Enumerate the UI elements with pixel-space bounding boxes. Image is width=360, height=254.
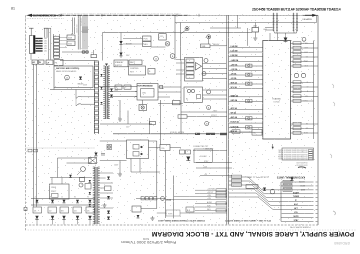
margin smudge 1 bbox=[332, 84, 334, 88]
fan label boxes bbox=[232, 175, 242, 178]
bottom row to bus 5 bbox=[195, 203, 227, 205]
rectifier cell diode top 2 bbox=[51, 200, 54, 203]
ladder row VIF bbox=[229, 113, 263, 115]
cap near xbox bbox=[101, 153, 105, 155]
x-circle lamp 2 bbox=[85, 50, 88, 53]
left label box y116 bbox=[178, 115, 187, 118]
secondary block bbox=[50, 184, 70, 199]
vertical wire at 121 bbox=[120, 33, 122, 59]
diode above x-box bbox=[94, 153, 97, 156]
ground under cap bbox=[254, 36, 256, 38]
vertical wire x181 mid bbox=[180, 61, 182, 134]
connector hatched post pair 2 bbox=[293, 13, 295, 32]
small dark part on y177 bbox=[80, 178, 85, 182]
circle symbol A in SAF block bbox=[65, 75, 70, 80]
vertical x156.8 bbox=[156, 141, 158, 209]
ground under T1 area bbox=[119, 117, 121, 119]
vertical below regbox 1 bbox=[130, 159, 132, 173]
ladder row SCL bbox=[229, 88, 263, 90]
svg-text:GRD4960: GRD4960 bbox=[334, 241, 350, 245]
svg-text:84 84: 84 84 bbox=[142, 237, 149, 240]
diode in SAF block bbox=[79, 77, 82, 80]
cold sub box bbox=[194, 149, 213, 163]
IC block top pin stubs bbox=[269, 33, 271, 41]
T2 core lines bbox=[95, 167, 97, 224]
rectifier cell diode bottom 2 bbox=[51, 216, 54, 220]
top border line bbox=[27, 14, 318, 16]
bottom row to bus 6 bbox=[195, 206, 227, 208]
top-left vertical bus wire 1 bbox=[77, 15, 79, 49]
top circle right bbox=[302, 37, 306, 41]
small box pair cold 2 bbox=[186, 150, 191, 154]
component fuse box bbox=[91, 55, 97, 58]
top-left vertical bus wire 4 bbox=[84, 15, 86, 49]
plug T-bar right bbox=[44, 27, 48, 29]
IC block cold control bbox=[184, 87, 203, 102]
notes table bbox=[282, 148, 314, 160]
right inner vertical line bbox=[313, 41, 315, 140]
rectifier cell box 1 bbox=[33, 207, 42, 213]
bottom wire y213 bbox=[157, 212, 166, 214]
mains vertical wire N bbox=[36, 64, 38, 205]
wire comb to regbox bbox=[100, 140, 127, 142]
rectifier cell diode top 5 bbox=[88, 200, 91, 203]
connector pin column bbox=[53, 34, 55, 58]
ladder row +13V bbox=[229, 70, 263, 72]
box control hot bbox=[129, 66, 146, 75]
rectifier cell stub 1 bbox=[36, 219, 38, 225]
bottom faint dotted row bbox=[25, 229, 356, 231]
main IC block TDA8380 bbox=[263, 41, 291, 140]
HOT drive block bbox=[137, 84, 158, 101]
right row DEFL bbox=[291, 43, 314, 45]
diode on y177 bbox=[69, 175, 72, 178]
bottom bus wire 1 bbox=[31, 198, 95, 200]
small box snubber 1 bbox=[115, 85, 122, 89]
rectifier cell diode top 4 bbox=[76, 200, 79, 203]
wire joining lamps bbox=[62, 51, 89, 53]
cold diode r1 bbox=[107, 177, 110, 180]
diode D2 mid bbox=[119, 53, 122, 56]
small dark box bottom mid bbox=[186, 207, 194, 212]
cold ground r bbox=[104, 203, 106, 205]
mains transformer T1 winding comb bbox=[104, 66, 106, 119]
wire hot to sub bbox=[142, 100, 144, 105]
rectifier cell box 4 bbox=[73, 207, 82, 213]
ladder row AFC bbox=[229, 109, 263, 111]
circle right of secondary bbox=[79, 183, 83, 187]
plug side wires bbox=[48, 28, 50, 59]
wire degauss top bbox=[175, 22, 317, 24]
wire RG to x181 bbox=[170, 147, 181, 149]
SAF sync control block bbox=[54, 66, 93, 88]
rectifier cell diode top 3 bbox=[62, 200, 65, 203]
bottom row to bus 2 bbox=[195, 193, 227, 195]
right circle pair 2 bbox=[301, 73, 305, 77]
IC block pins bbox=[203, 89, 227, 91]
input terminal box 1 bbox=[32, 60, 38, 64]
x-box isolation bbox=[89, 158, 97, 164]
cold bottom box bbox=[132, 206, 141, 212]
rectifier cell diode top 1 bbox=[35, 200, 38, 203]
small box RG bbox=[160, 145, 170, 151]
T1 left side marks bbox=[100, 74, 102, 76]
small box right of hot bbox=[173, 101, 181, 105]
ladder row H-OUT bbox=[229, 122, 263, 124]
vertical stub x237.5 bbox=[237, 15, 239, 28]
stack wire to bus 3 bbox=[203, 73, 227, 75]
cold small box r1 bbox=[105, 186, 112, 191]
connector loop bottom bar bbox=[275, 32, 297, 34]
bottom border dashed bbox=[26, 224, 319, 226]
mains vertical wire L bbox=[33, 64, 35, 205]
cold bottom wire bbox=[141, 208, 157, 210]
hot-cold dotted separator bbox=[26, 147, 96, 149]
rectifier cell stub 2 bbox=[52, 219, 54, 225]
ladder top row 3 bbox=[229, 56, 263, 58]
fan mid box bbox=[246, 185, 258, 189]
svg-text:2SC4458 TDA8380 BUT11AF S2000A: 2SC4458 TDA8380 BUT11AF S2000AF TDA3653B… bbox=[252, 8, 341, 12]
rectifier cell stub 4 bbox=[77, 219, 79, 225]
right row BLK2 bbox=[291, 132, 314, 134]
chopper transformer T2 winding comb bbox=[94, 167, 96, 224]
wire y158 secondary bbox=[58, 157, 93, 159]
central vertical bus line 2 bbox=[228, 15, 230, 224]
capacitor C25 bbox=[252, 28, 259, 33]
connector hatched post pair 1 bbox=[273, 13, 275, 32]
wire y147.5 right bbox=[149, 147, 161, 149]
bottom row to bus 3 bbox=[174, 196, 227, 198]
big diode cold bbox=[186, 157, 190, 161]
top border left arrow bbox=[27, 14, 33, 17]
right border line bbox=[317, 15, 319, 225]
vertical below regbox 2 bbox=[139, 159, 141, 173]
bottom vertical x173.7 bbox=[173, 176, 175, 219]
control block outline bbox=[185, 58, 203, 82]
ladder row GND bbox=[229, 100, 263, 102]
switch feed wire bbox=[75, 90, 77, 99]
top-left vertical bus wire 2 bbox=[79, 15, 81, 49]
circled letter top2 bbox=[207, 35, 211, 39]
right row AUX bbox=[291, 65, 314, 67]
wire y162.5 bbox=[196, 162, 232, 164]
vertical stub at 102 bbox=[102, 33, 104, 61]
rectifier cell diode bottom 5 bbox=[88, 216, 91, 220]
small box aux bbox=[148, 69, 155, 75]
right row HEAT bbox=[291, 61, 314, 63]
wire diode to P1 bbox=[123, 38, 143, 40]
cold diode r4 bbox=[107, 217, 110, 220]
vertical+gnd cold bbox=[119, 161, 121, 173]
rectifier cell diode bottom 4 bbox=[76, 216, 79, 220]
circle A mid bbox=[207, 106, 211, 110]
right row H2 bbox=[291, 123, 314, 125]
bottom bus wire 2 bbox=[31, 204, 95, 206]
bottom row to bus 1 bbox=[195, 189, 227, 191]
wire y168 bbox=[196, 167, 232, 169]
stack wire to bus 1 bbox=[203, 63, 227, 65]
small box K1 bbox=[67, 35, 75, 40]
vertical x149.5 drop bbox=[149, 118, 151, 134]
loop left stub wires bbox=[265, 27, 273, 29]
wire under SAF block bbox=[50, 89, 95, 91]
small box on wire bbox=[150, 122, 156, 125]
vertical wire x247.5 bbox=[247, 28, 249, 46]
wire mid horizontal bbox=[103, 32, 253, 34]
input terminal box 3 bbox=[46, 60, 53, 65]
plug bottom wire bbox=[30, 54, 32, 61]
stacked box P1 bbox=[143, 36, 152, 41]
wire T1 to HOT block 2 bbox=[110, 96, 137, 98]
bus fan to bottom-right connector bbox=[229, 176, 248, 178]
long cold B+ wire bbox=[113, 133, 227, 135]
stacked box P2 bbox=[143, 42, 152, 47]
small box pair cold 1 bbox=[180, 150, 185, 154]
switch contact 2 bbox=[76, 104, 82, 106]
top-left vertical bus wire 5 bbox=[86, 15, 88, 49]
margin smudge 2 bbox=[333, 102, 335, 106]
wire mid low bbox=[181, 111, 227, 113]
rectifier cell stub 3 bbox=[63, 219, 65, 225]
control stack boxes bbox=[186, 59, 194, 62]
rectifier cell box 5 bbox=[86, 207, 95, 213]
left wires into cells bbox=[33, 206, 35, 208]
ladder top row 2 bbox=[229, 51, 263, 53]
cold regulator box bbox=[127, 140, 149, 159]
wire y150.5 bbox=[193, 150, 227, 152]
box mains rect label bbox=[129, 60, 142, 65]
wire y175.5 bbox=[200, 175, 232, 177]
circled letter near stack bbox=[202, 72, 206, 76]
rectifier cell box 3 bbox=[60, 207, 69, 213]
right row R bbox=[291, 82, 314, 84]
wire y46 to bus bbox=[210, 45, 227, 47]
rectifier cell diode bottom 1 bbox=[35, 216, 38, 220]
small box K2 bbox=[67, 41, 75, 46]
wire y160.5 cold bbox=[100, 160, 127, 162]
ladder row VBAT bbox=[229, 96, 263, 98]
x-circle lamp 1 bbox=[82, 50, 85, 53]
wire top-left horizontal bbox=[60, 60, 98, 62]
left border dashed bbox=[25, 15, 27, 230]
margin smudge 4 bbox=[333, 211, 335, 215]
ladder row SDA bbox=[229, 83, 263, 85]
degauss arrow to corner bbox=[305, 14, 313, 16]
wire y177.5 secondary bbox=[50, 177, 92, 179]
circled letter top of stack bbox=[204, 59, 208, 63]
squares row bbox=[136, 197, 166, 199]
rectifier cell diode bottom 3 bbox=[62, 216, 65, 220]
stack wire to bus 4 bbox=[203, 78, 227, 80]
bottom row to bus 4 bbox=[166, 199, 227, 201]
cold bottom ground bbox=[152, 216, 154, 218]
circle before ladder bbox=[270, 189, 275, 194]
transistor circle Q2 bbox=[170, 54, 175, 59]
small box snubber 2 bbox=[124, 85, 131, 89]
stack wire to bus 2 bbox=[203, 68, 227, 70]
note arrow pin bbox=[272, 144, 274, 149]
ladder row +8V bbox=[229, 74, 263, 76]
wire segment y28 bbox=[210, 27, 241, 29]
transistor circle Q1 bbox=[165, 41, 170, 46]
svg-text:POWER SUPPLY, LARGE SIGNAL, AN: POWER SUPPLY, LARGE SIGNAL, AND TXT - BL… bbox=[151, 230, 354, 237]
circle after squares bbox=[161, 197, 165, 201]
plug T-bar left bbox=[29, 27, 34, 29]
mains plug housing bbox=[30, 36, 36, 54]
op-amp triangle bbox=[196, 63, 202, 71]
scan noise overlay bbox=[25, 14, 318, 226]
box right of secondary bbox=[85, 184, 91, 190]
ladder row BLK bbox=[229, 131, 263, 133]
ladder row +25V bbox=[229, 65, 263, 67]
left border connector mark bbox=[24, 208, 27, 211]
vertical drop to wire bbox=[127, 111, 129, 125]
top-left vertical bus wire 3 bbox=[82, 15, 84, 49]
ladder row +5V bbox=[229, 79, 263, 81]
diode under loop bbox=[285, 33, 287, 38]
cold B+ label marks bbox=[195, 133, 200, 135]
switch contact 1 bbox=[76, 96, 82, 98]
right circle pair 1 bbox=[294, 73, 298, 77]
cold diode r2 bbox=[107, 196, 110, 199]
right row B bbox=[291, 91, 314, 93]
ladder row AUD bbox=[229, 118, 263, 120]
box with xcircle cold bbox=[107, 145, 112, 150]
zener diode cluster 2 bbox=[110, 95, 113, 98]
vertical wire w ground bbox=[119, 100, 121, 118]
central vertical bus line 1 bbox=[226, 15, 228, 224]
right row FOC bbox=[291, 52, 314, 54]
dashed drop from xbox bbox=[95, 164, 97, 168]
wire y103.5 right bbox=[158, 103, 183, 105]
mains plug pins bbox=[35, 38, 42, 39]
ladder row +140V bbox=[229, 61, 263, 63]
right row SYNC bbox=[291, 100, 314, 102]
wire from regbox right y141 bbox=[149, 140, 157, 142]
tick boxes under separator bbox=[28, 149, 32, 152]
circled letter top1 bbox=[185, 27, 189, 31]
diode D1 mid bbox=[119, 41, 122, 44]
wire bottom of hot area bbox=[100, 123, 152, 125]
input box 4 bbox=[54, 60, 63, 66]
small box top mid bbox=[201, 44, 211, 48]
right row G2 bbox=[291, 56, 314, 58]
top border ticks bbox=[101, 14, 103, 17]
mains connector strip bbox=[94, 61, 96, 135]
ladder top row 1 bbox=[229, 47, 263, 49]
box standby supply bbox=[114, 60, 128, 67]
sub box with circle bbox=[139, 105, 147, 111]
rectifier cell stub 5 bbox=[89, 219, 91, 225]
wire y163 secondary bbox=[67, 162, 93, 164]
zener diode cluster 1 bbox=[110, 89, 113, 92]
right row G bbox=[291, 86, 314, 88]
bottom row to bus 7 bbox=[195, 210, 227, 212]
wire pair left bbox=[72, 18, 74, 35]
T1 top arrow bbox=[105, 64, 108, 67]
top faint dashed row bbox=[25, 18, 64, 20]
bottom vertical x165.5 bbox=[165, 151, 167, 219]
box degauss ctrl bbox=[159, 34, 167, 40]
cold diode r3 bbox=[107, 211, 110, 214]
input terminal box 2 bbox=[39, 60, 45, 64]
margin smudge 3 bbox=[330, 154, 332, 158]
ladder row V-OUT bbox=[229, 127, 263, 129]
cold wires right of comb bbox=[100, 172, 113, 174]
right row VID bbox=[291, 96, 314, 98]
T1 core lines bbox=[105, 66, 107, 119]
margin smudge 5 bbox=[338, 231, 340, 235]
circle right of IC block bbox=[207, 90, 211, 94]
vertical wire x180 bbox=[180, 23, 182, 61]
wire y132 bus to right bbox=[229, 131, 252, 133]
right row EHT bbox=[291, 47, 314, 49]
arrow under caption bbox=[290, 177, 293, 180]
hot block pins right bbox=[158, 86, 181, 88]
vertical wire x160.5 bbox=[160, 100, 162, 145]
rectifier cell box 2 bbox=[48, 207, 57, 213]
vertical wire x175 bbox=[174, 15, 176, 60]
right row V2 bbox=[291, 128, 314, 130]
right border stubs bbox=[314, 47, 319, 49]
T2 left side marks bbox=[89, 180, 91, 182]
circle G sec bbox=[81, 167, 86, 172]
transistor circle Q3 bbox=[154, 56, 159, 61]
wire y47 bbox=[151, 46, 166, 48]
diode before ladder bbox=[263, 188, 266, 191]
wire y172 cold bbox=[131, 171, 160, 173]
svg-text:81: 81 bbox=[11, 6, 15, 10]
wire T1 to HOT block 3 bbox=[110, 91, 137, 93]
wire T1 to HOT block 1 bbox=[99, 86, 138, 88]
bottom faint box bbox=[166, 210, 180, 216]
bottom-right connector ladder bbox=[281, 181, 314, 183]
circled letter mid 2 bbox=[205, 122, 209, 126]
small box right edge of hot bbox=[160, 86, 163, 89]
